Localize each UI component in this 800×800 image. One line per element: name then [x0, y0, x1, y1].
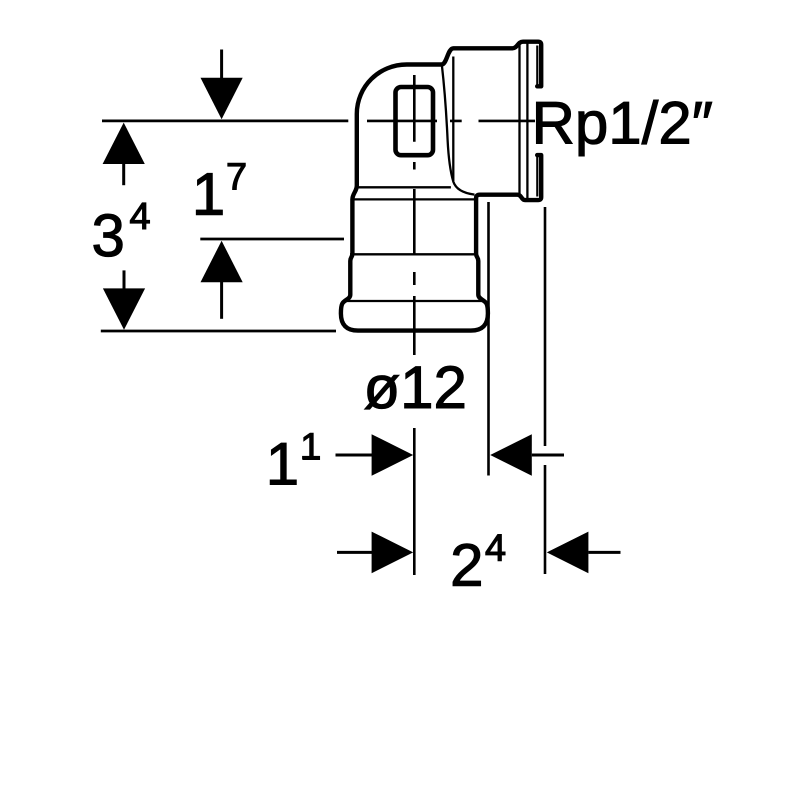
- arrow down to axis line: [220, 50, 223, 81]
- thin line: socket cone edge: [452, 57, 454, 182]
- thin line: end-face chamfer upper: [536, 46, 538, 86]
- arrow up below axis line: [103, 123, 145, 164]
- thin feature line: press socket step: [350, 253, 478, 255]
- label 2 (2.4): [453, 544, 480, 586]
- arrow down to bottom line: [123, 270, 126, 289]
- label 1 exponent 1: [303, 433, 319, 459]
- label 1 (1.1): [270, 443, 296, 484]
- fitting outline (elbow body, press socket, threaded flange): [341, 42, 541, 331]
- dimension line middle (1-7 level): [200, 238, 344, 241]
- row1 dimension arrows (1-1): [336, 454, 373, 457]
- marking window rectangle on elbow: [396, 87, 434, 155]
- dimension line bottom: [101, 330, 336, 333]
- serif foot of exponent 1: [302, 456, 320, 460]
- label 1 exponent 7: [228, 163, 245, 189]
- thin feature line: bead top: [344, 300, 485, 302]
- horizontal centerline: [367, 120, 535, 123]
- label 3: [94, 214, 122, 257]
- thin line: end-face chamfer lower: [536, 157, 538, 197]
- arrow up below middle line: [201, 241, 243, 282]
- vertical centerline: [413, 75, 416, 575]
- extension line from shoulder: [487, 202, 490, 476]
- dimension line top (axis level): [102, 120, 348, 123]
- thin feature line: press socket top: [351, 198, 475, 200]
- row2 dimension arrows (2-4): [337, 551, 372, 554]
- thin feature line: socket joint upper: [359, 186, 451, 188]
- thin curve: elbow/socket boundary: [442, 65, 475, 195]
- serif foot of 1 (1.1): [271, 480, 295, 485]
- label 3 exponent 4: [130, 203, 149, 229]
- serif foot of 1 in Rp1/2: [614, 139, 638, 144]
- label Rp1/2: [537, 100, 712, 156]
- serif foot of 1 (1.7): [197, 210, 221, 215]
- thin line: flange left: [518, 45, 520, 198]
- label 2 exponent 4: [486, 535, 505, 561]
- serif foot of 1 in diameter 12: [405, 403, 430, 408]
- label diameter 12: [365, 366, 464, 409]
- extension line from end face: [544, 207, 547, 574]
- label 1 (1.7): [196, 173, 222, 214]
- thin line: flange chamfer: [526, 44, 528, 199]
